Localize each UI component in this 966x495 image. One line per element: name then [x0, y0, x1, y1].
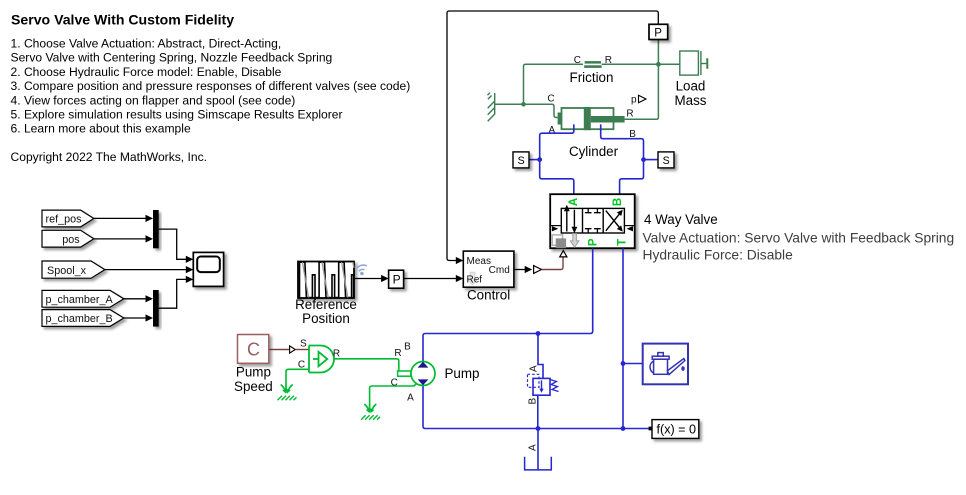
- wire: Meas feedback long signal wire: [447, 11, 658, 261]
- wire node down to cylinder R: [625, 40, 659, 120]
- wire node up to friction C: [524, 64, 584, 104]
- svg-text:p_chamber_B: p_chamber_B: [46, 313, 113, 325]
- wire mux2 to scope: [159, 279, 187, 308]
- svg-text:P: P: [393, 272, 401, 286]
- svg-text:Hydraulic Force: Disable: Hydraulic Force: Disable: [643, 248, 794, 263]
- svg-text:Valve Actuation: Servo Valve w: Valve Actuation: Servo Valve with Feedba…: [643, 230, 955, 245]
- relief valve pilot dashed box: [528, 374, 540, 387]
- S sensor tag left: [529, 159, 540, 161]
- node C junction: [521, 102, 526, 107]
- svg-text:Cylinder: Cylinder: [569, 144, 619, 159]
- svg-text:Friction: Friction: [570, 70, 614, 85]
- wire p_chamber_B to mux2: [124, 317, 147, 319]
- svg-text:Spool_x: Spool_x: [47, 265, 87, 277]
- svg-text:Servo Valve with Centering Spr: Servo Valve with Centering Spring, Nozzl…: [11, 51, 333, 65]
- wire relief branch top: [538, 334, 543, 379]
- svg-text:Mass: Mass: [675, 93, 707, 108]
- wire relief branch bottom: [537, 395, 539, 428]
- wireless icon: [357, 265, 367, 271]
- valve gray badge squares: [552, 235, 562, 245]
- goto tag P (mid): [389, 270, 404, 288]
- svg-text:S: S: [300, 339, 307, 350]
- S sensor tag right: [644, 159, 659, 161]
- valve input triangle: [560, 251, 567, 257]
- f(x)=0 solver block: [652, 420, 699, 439]
- Pump Speed source block: [238, 335, 269, 364]
- wire pump C to ground: [370, 383, 418, 404]
- svg-text:Meas: Meas: [467, 256, 491, 267]
- pump triangles: [418, 362, 429, 368]
- valve inner rect: [561, 208, 624, 233]
- valve middle cell blocked ports: [585, 208, 601, 233]
- cylinder rod: [591, 116, 625, 123]
- wire p_chamber_A to mux2: [124, 298, 147, 300]
- arrowhead into Control Meas: [456, 257, 464, 264]
- svg-text:1. Choose Valve Actuation: Abs: 1. Choose Valve Actuation: Abstract, Dir…: [11, 37, 282, 51]
- hydraulic wire valve T down: [622, 248, 624, 428]
- svg-text:C: C: [391, 377, 398, 388]
- hydraulic wire valve P to pump B: [423, 248, 593, 362]
- open triangle converter: [290, 346, 296, 353]
- valve side channels: [550, 225, 561, 227]
- svg-text:Ref: Ref: [467, 274, 483, 285]
- svg-text:C: C: [574, 55, 581, 66]
- svg-text:C: C: [247, 340, 260, 360]
- cylinder C wire: [524, 104, 558, 117]
- svg-text:A: A: [529, 365, 540, 372]
- friction element: [585, 61, 601, 64]
- pump circle: [411, 362, 435, 386]
- svg-text:A: A: [407, 393, 414, 404]
- from tag ref_pos: [42, 210, 94, 227]
- wire tee to oil block: [623, 363, 643, 365]
- cylinder piston: [584, 107, 591, 130]
- valve left cell arrows: [566, 210, 568, 232]
- valve gray arrow: [570, 234, 579, 248]
- gray watermark arrow in Control: [468, 272, 478, 284]
- goto tag P (top right): [649, 24, 668, 39]
- svg-text:Control: Control: [467, 288, 510, 303]
- valve right cell crossed arrows: [606, 213, 621, 231]
- wire PS brown to valve input: [542, 258, 564, 270]
- svg-text:B: B: [404, 342, 411, 353]
- wire Pump Speed to converter: [269, 349, 290, 351]
- scope block: [193, 252, 223, 286]
- svg-text:A: A: [548, 125, 555, 136]
- svg-text:S: S: [663, 155, 670, 167]
- svg-text:Cmd: Cmd: [489, 265, 510, 276]
- svg-text:p_chamber_A: p_chamber_A: [46, 294, 114, 306]
- svg-text:3. Compare position and pressu: 3. Compare position and pressure respons…: [11, 79, 411, 93]
- oil can icon: [650, 353, 685, 375]
- wire converter to source S: [295, 349, 309, 351]
- node junction at P tag: [656, 62, 661, 67]
- svg-text:Pump: Pump: [445, 366, 480, 381]
- cylinder body: [562, 108, 614, 129]
- open triangle connector: [534, 266, 542, 274]
- hydraulic wire cylinder A to valve A: [540, 124, 574, 194]
- cylinder left tab: [558, 113, 562, 125]
- svg-text:Reference: Reference: [295, 297, 357, 312]
- svg-text:R: R: [333, 348, 340, 359]
- svg-text:S: S: [518, 155, 525, 167]
- svg-text:pos: pos: [62, 234, 80, 246]
- hydraulic return line pump A to f(x)=0: [423, 386, 649, 429]
- rotational reference ground 2: [364, 404, 376, 413]
- from tag Spool_x: [42, 261, 105, 278]
- rotational reference ground 1: [281, 384, 293, 393]
- wire source C to ground: [286, 369, 309, 384]
- svg-text:Load: Load: [676, 79, 706, 94]
- svg-text:A: A: [568, 198, 580, 206]
- mux Mux2: [153, 290, 159, 327]
- svg-text:C: C: [547, 94, 554, 105]
- Control subsystem block: [463, 251, 514, 287]
- oil block (custom hydraulic fluid): [643, 344, 688, 385]
- wire pos to mux1: [94, 238, 147, 240]
- node oil tee: [621, 361, 626, 366]
- valve green port letters: [568, 198, 628, 246]
- svg-text:R: R: [394, 348, 401, 359]
- svg-text:2. Choose Hydraulic Force mode: 2. Choose Hydraulic Force model: Enable,…: [11, 65, 282, 79]
- 4 way valve block: [550, 194, 635, 248]
- translational reference (wall): [488, 93, 495, 122]
- svg-text:R: R: [626, 109, 633, 120]
- pump R tab: [398, 371, 411, 376]
- wire ref_pos to mux1: [94, 217, 147, 219]
- svg-text:Servo Valve With Custom Fideli: Servo Valve With Custom Fidelity: [11, 12, 234, 28]
- wire friction R to node P: [602, 63, 680, 65]
- svg-text:A: A: [528, 444, 539, 451]
- relief valve body: [533, 378, 550, 395]
- wire source R to pump R: [334, 359, 399, 371]
- svg-text:B: B: [528, 398, 539, 405]
- wire wall to node: [495, 103, 524, 105]
- from tag p_chamber_B: [42, 310, 124, 327]
- from tag p_chamber_A: [42, 290, 124, 307]
- svg-text:B: B: [612, 198, 624, 206]
- svg-text:4. View forces acting on flapp: 4. View forces acting on flapper and spo…: [11, 93, 296, 107]
- Reference Position source block: [298, 262, 354, 299]
- svg-text:Speed: Speed: [234, 379, 273, 394]
- svg-text:4 Way Valve: 4 Way Valve: [644, 212, 718, 227]
- waveform inside Reference Position: [300, 262, 354, 297]
- wire RefPos to P goto tag: [354, 278, 382, 280]
- svg-text:Copyright 2022 The MathWorks,: Copyright 2022 The MathWorks, Inc.: [11, 150, 208, 164]
- svg-text:f(x) = 0: f(x) = 0: [657, 422, 697, 436]
- svg-text:Pump: Pump: [236, 365, 271, 380]
- svg-text:T: T: [616, 239, 628, 246]
- wire Spool_x to scope: [105, 269, 187, 271]
- mux Mux1: [153, 210, 159, 248]
- svg-text:P: P: [587, 238, 599, 246]
- svg-text:ref_pos: ref_pos: [46, 213, 83, 225]
- svg-text:Position: Position: [302, 311, 350, 326]
- svg-text:5. Explore simulation results: 5. Explore simulation results using Sims…: [11, 108, 343, 122]
- tank symbol: [537, 429, 539, 470]
- svg-text:p: p: [631, 95, 637, 106]
- wire Control Cmd out to PS converter: [514, 269, 526, 271]
- Load Mass block: [680, 51, 708, 75]
- relief valve spring: [550, 380, 559, 392]
- svg-text:P: P: [654, 27, 662, 39]
- wire mux1 to scope: [159, 229, 187, 259]
- node relief tee on supply: [536, 331, 541, 336]
- rotational source block: [309, 346, 334, 373]
- wire P tag to Control Ref: [404, 278, 457, 280]
- svg-text:6. Learn more about this examp: 6. Learn more about this example: [11, 122, 191, 136]
- hydraulic wire cylinder B to valve B: [601, 124, 644, 194]
- from tag pos: [42, 230, 94, 247]
